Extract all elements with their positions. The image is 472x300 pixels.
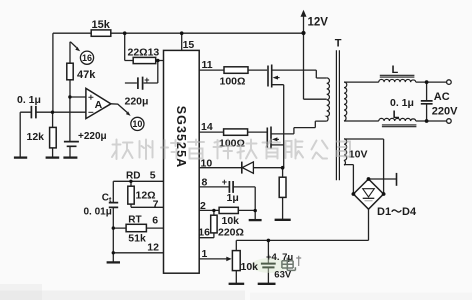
svg-text:220Ω: 220Ω: [218, 227, 244, 239]
node ref circle 16: [80, 51, 93, 64]
resistor 15k: [91, 30, 111, 36]
svg-text:1: 1: [202, 248, 208, 260]
svg-text:+220μ: +220μ: [78, 131, 107, 142]
resistor 100ohm A: [224, 67, 248, 74]
svg-text:0. 01μ: 0. 01μ: [84, 207, 112, 218]
svg-text:5: 5: [150, 170, 156, 182]
wire 220uF-B leads: [125, 61, 158, 84]
watermark company name band: [112, 140, 350, 160]
wire RD legs pin7: [131, 181, 164, 207]
svg-text:220V: 220V: [432, 106, 458, 118]
watermark char rui: [188, 140, 204, 159]
ground input: [14, 156, 27, 158]
wire 220ohm legs pin16: [199, 210, 214, 237]
svg-text:220μ: 220μ: [125, 96, 149, 108]
wire pin11 gate A: [199, 69, 267, 71]
svg-text:10k: 10k: [241, 261, 259, 273]
capacitor 4.7u plates green: [251, 258, 289, 273]
ground 12k: [46, 156, 60, 158]
svg-text:100Ω: 100Ω: [220, 76, 246, 88]
svg-text:6: 6: [152, 215, 158, 227]
wire 12k legs: [52, 112, 54, 157]
bridge rectifier D1-D4: [353, 179, 383, 209]
inductor L top core bars: [380, 75, 415, 77]
wire output cap legs: [426, 82, 428, 121]
arrow to pin16 ref: [70, 42, 76, 48]
svg-text:10V: 10V: [349, 149, 368, 161]
wire pin2: [199, 209, 255, 211]
resistor 12k: [50, 127, 57, 147]
svg-text:47k: 47k: [77, 69, 96, 81]
svg-text:15: 15: [183, 39, 195, 51]
svg-text:14: 14: [201, 121, 213, 133]
svg-text:16: 16: [198, 227, 210, 239]
wire pot legs: [235, 240, 237, 283]
watermark char ji: [237, 140, 257, 159]
watermark char gong: [312, 141, 328, 159]
svg-text:RD: RD: [126, 171, 140, 182]
svg-text:12k: 12k: [27, 131, 45, 143]
ground 4.7u: [258, 283, 276, 285]
svg-text:2: 2: [200, 200, 206, 212]
wire pin8 soft-start: [199, 187, 255, 220]
op-amp U2 A triangle: [86, 88, 111, 118]
wire pin12: [113, 252, 163, 254]
resistor RT 51k: [126, 224, 146, 231]
wire pin1 to pot wiper: [199, 258, 227, 260]
diode D5 shutdown: [241, 162, 243, 174]
watermark char dian dark: [282, 258, 296, 271]
ground Ct: [107, 261, 120, 263]
wire 47k legs: [69, 42, 71, 97]
wire pin10 shutdown: [199, 167, 284, 169]
wire 12V rail down and center tap: [304, 33, 327, 99]
svg-text:7: 7: [153, 199, 159, 211]
wire pin15: [181, 33, 183, 50]
resistor 22ohm: [133, 57, 156, 63]
svg-text:L: L: [393, 109, 400, 121]
resistor 10k pin2: [219, 207, 238, 213]
svg-text:T: T: [335, 38, 342, 50]
svg-text:0. 1μ: 0. 1μ: [17, 94, 41, 106]
wire source Q2: [271, 144, 284, 146]
svg-text:1μ: 1μ: [227, 192, 239, 204]
inductor L bottom coil: [379, 118, 416, 121]
svg-text:RT: RT: [128, 214, 141, 225]
inductor L top coil: [379, 79, 416, 82]
watermark small mark: [296, 256, 301, 266]
watermark char hang: [112, 140, 133, 160]
svg-text:16: 16: [82, 53, 92, 63]
svg-text:11: 11: [202, 59, 213, 71]
transistor Q2 mosfet: [267, 127, 279, 149]
wire bridge bottom to rail: [368, 209, 370, 240]
op-amp plus input mark: [88, 95, 93, 100]
transformer T core: [336, 50, 339, 180]
terminal AC top: [447, 80, 452, 85]
arrow pin1 pot wiper: [226, 257, 231, 262]
watermark char zhou: [140, 140, 153, 160]
resistor 220ohm: [211, 215, 217, 233]
arrow 12V: [301, 10, 307, 17]
svg-text:Ct: Ct: [102, 192, 112, 204]
wire pin5: [113, 180, 163, 182]
watermark char xian: [286, 140, 304, 159]
capacitor 220u B plates: [138, 77, 143, 90]
inductor L bottom core bars: [382, 125, 417, 127]
IC U1 SG3525A body: [164, 50, 200, 273]
watermark char ke: [214, 140, 233, 159]
wire 4.7uF legs: [267, 240, 269, 283]
wire inverting input: [20, 111, 86, 113]
wire input left leg: [19, 112, 21, 157]
svg-text:L: L: [392, 64, 399, 76]
wire drain Q2 to primary bottom: [271, 121, 327, 134]
svg-text:+: +: [144, 75, 149, 85]
wire feedback bottom rail: [236, 239, 368, 241]
svg-text:51k: 51k: [128, 233, 146, 245]
ground 1u: [249, 219, 262, 221]
svg-text:12: 12: [147, 241, 159, 253]
wire secondary leads to filter: [344, 82, 447, 121]
svg-text:AC: AC: [434, 91, 450, 103]
ground sense resistor: [275, 219, 291, 221]
op-amp output arrow to pin10 ref: [111, 104, 127, 113]
transformer secondary main winding: [344, 82, 347, 121]
wire bridge plus output: [369, 178, 397, 180]
svg-text:8: 8: [202, 177, 208, 189]
svg-text:22Ω13: 22Ω13: [128, 47, 160, 59]
wire RT leads pin6: [113, 227, 163, 229]
svg-text:D1～D4: D1～D4: [377, 206, 417, 218]
wire 220uF-A branch: [69, 97, 71, 157]
op-amp minus input mark: [88, 111, 93, 113]
svg-text:10k: 10k: [222, 215, 240, 227]
wire 10V winding leads: [344, 139, 384, 194]
svg-text:+: +: [222, 177, 227, 187]
watermark char si: [337, 142, 351, 157]
potentiometer 10k: [232, 251, 240, 271]
wire top rail: [53, 32, 304, 34]
node ref circle 10: [131, 117, 144, 130]
transformer secondary 10V winding: [344, 139, 347, 165]
resistor RD 12ohm: [128, 186, 134, 204]
svg-text:0. 1μ: 0. 1μ: [390, 97, 414, 109]
capacitor Ct plates: [109, 203, 118, 208]
svg-text:15k: 15k: [92, 19, 111, 31]
resistor 47k: [67, 63, 73, 80]
wire feedback vertical to inverting input: [52, 33, 54, 112]
watermark char you: [263, 140, 281, 159]
wire pin14 gate B: [199, 131, 266, 133]
ground pot: [229, 283, 245, 285]
svg-text:12V: 12V: [308, 16, 329, 28]
wire 12V arrow stem: [303, 15, 305, 34]
wire drain Q1 to primary top: [272, 70, 327, 78]
ground 220u A: [63, 156, 77, 158]
wire sense resistor legs: [282, 168, 284, 219]
capacitor 0.1u output plates: [421, 101, 433, 104]
svg-text:+4. 7μ: +4. 7μ: [266, 252, 293, 263]
transformer primary winding: [327, 78, 330, 121]
terminal bridge output bar: [396, 173, 398, 186]
svg-text:A: A: [95, 99, 103, 111]
capacitor 1u plates: [229, 181, 233, 193]
svg-text:10: 10: [132, 119, 142, 129]
wire source Q1 down: [272, 85, 284, 168]
capacitor 0.1u input plates: [31, 106, 36, 119]
terminal AC bottom: [447, 119, 452, 124]
resistor sense: [279, 177, 286, 197]
wire 22ohm branch pin13: [125, 33, 164, 60]
watermark char jiang: [161, 140, 181, 159]
scan noise strips: [0, 291, 245, 300]
wire Ct node column: [112, 181, 114, 262]
wire non-inverting input: [70, 96, 86, 98]
resistor 100ohm B: [224, 129, 248, 135]
transistor Q1 mosfet: [268, 65, 280, 88]
capacitor 220u A plates: [64, 142, 79, 147]
